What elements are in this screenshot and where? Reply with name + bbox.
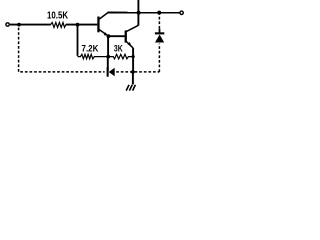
- diode D2 triangle: [155, 35, 164, 43]
- wire node B down to resistor row: [77, 25, 79, 56]
- diode D2 cathode bar: [155, 32, 164, 34]
- top wire collector rail: [108, 12, 180, 14]
- wire Q1 emitter to Q2 base: [108, 35, 124, 37]
- transistor Q1 base bar: [97, 17, 99, 33]
- transistor Q2 collector: [126, 25, 138, 31]
- wire R1 to Q1 base: [66, 24, 98, 26]
- wire resistor junction down to diode D1: [107, 57, 109, 70]
- diode D1 cathode bar: [107, 67, 109, 76]
- dashed feedback: right vertical above diode D2: [158, 14, 160, 29]
- wire input to resistor R1: [10, 24, 51, 26]
- transistor Q2 emitter with arrow: [126, 42, 133, 49]
- wire Q2 collector up to top rail and supply stub: [137, 0, 139, 26]
- input terminal (open circle, left): [6, 23, 9, 26]
- wire ground node down: [132, 72, 134, 85]
- svg-text:7.2K: 7.2K: [82, 44, 99, 55]
- svg-text:3K: 3K: [114, 44, 123, 55]
- resistor R2 7.2K zigzag: [78, 54, 109, 59]
- junction dot top rail right: [157, 11, 161, 15]
- wire Q2 emitter down to ground node: [132, 48, 134, 72]
- transistor Q1 emitter with arrow: [99, 29, 108, 36]
- diode D1 triangle: [109, 68, 115, 77]
- dashed feedback: left vertical + bottom-left segment: [19, 28, 105, 72]
- wire emitter junction down to resistor junction: [107, 36, 109, 56]
- dashed feedback: bottom right segment: [116, 71, 159, 73]
- dashed feedback: right vertical below diode D2: [158, 44, 160, 72]
- output terminal (open circle, right): [180, 11, 183, 14]
- node C resistor junction dot: [106, 55, 110, 59]
- resistor R3 3K zigzag: [108, 54, 133, 59]
- svg-text:10.5K: 10.5K: [47, 11, 69, 22]
- node E emitter junction dot: [107, 34, 111, 38]
- resistor R1 10.5K zigzag: [51, 22, 66, 27]
- node A junction dot on input wire: [17, 23, 21, 27]
- junction dot ground node on dashed line: [131, 70, 135, 74]
- transistor Q1 collector: [99, 13, 108, 20]
- node B junction dot (divider tap): [76, 23, 80, 27]
- junction dot top rail / supply: [137, 11, 141, 15]
- node emitter/3K junction dot: [132, 55, 135, 58]
- wire stub above D2: [159, 29, 161, 33]
- transistor Q2 base bar: [125, 30, 127, 42]
- ground: [126, 85, 135, 91]
